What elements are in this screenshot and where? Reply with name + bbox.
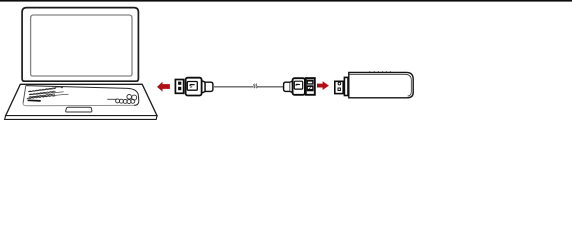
right connector strain relief	[284, 82, 291, 91]
right connector body	[293, 78, 305, 95]
touchpad	[66, 107, 92, 112]
keyboard squiggle row 2	[29, 91, 55, 95]
modem plug hole square	[338, 88, 340, 91]
modem USB plug	[335, 81, 343, 93]
USB plug strain relief	[205, 82, 213, 91]
modem body	[349, 72, 413, 97]
USB plug neck	[203, 81, 206, 93]
modem body inner top line	[350, 74, 412, 96]
right connector neck	[290, 81, 292, 93]
laptop base front edge	[5, 116, 157, 120]
keyboard deck bottom edge	[23, 103, 134, 105]
USB receptacle metal shell	[306, 78, 315, 95]
USB plug metal tip (left connector)	[175, 80, 183, 94]
USB cable left segment	[213, 86, 254, 88]
right keyboard loop scribbles	[116, 95, 137, 104]
keyboard deck left edge	[23, 86, 26, 104]
modem collar	[344, 77, 348, 95]
modem top edge dashes	[370, 71, 390, 72]
keyboard squiggle row 4	[27, 96, 55, 99]
right keyboard short line	[107, 98, 117, 100]
keyboard deck top edge and right curve	[26, 86, 139, 106]
laptop base top surface	[6, 84, 157, 115]
red arrow right (toward modem)	[317, 81, 329, 90]
USB plug body (left connector)	[186, 78, 202, 96]
laptop screen inner panel	[31, 15, 132, 76]
keyboard bold key bar	[28, 99, 41, 102]
receptacle upper port	[307, 80, 314, 85]
top page border line	[0, 0, 572, 2]
laptop screen outer frame	[22, 8, 138, 82]
USB cable right segment	[257, 86, 283, 88]
right connector body icon	[294, 81, 302, 89]
keyboard squiggle row 1	[28, 87, 63, 92]
USB plug tip holes	[178, 82, 181, 85]
keyboard squiggle row 3	[29, 94, 55, 98]
modem plug hole circle	[338, 82, 341, 85]
USB plug body icon	[187, 82, 197, 91]
cable break mark	[254, 84, 255, 89]
red arrow left (toward laptop)	[157, 82, 170, 92]
receptacle lower port	[307, 85, 314, 91]
